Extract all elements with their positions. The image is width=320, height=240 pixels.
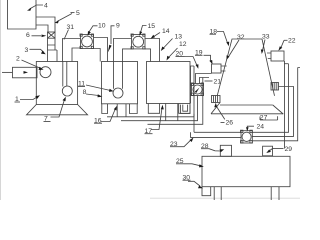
trapezoid scrubber [217, 39, 274, 96]
label 30 [183, 175, 204, 189]
svg-text:31: 31 [67, 24, 75, 31]
pipe from box 22 to right run A [284, 63, 289, 65]
pipe 3 below valve [48, 38, 56, 50]
scan edge left [0, 0, 2, 200]
drum 11 circle [113, 88, 123, 98]
screw feeder 2 body [2, 67, 37, 78]
rotary feeder circle 2 [40, 67, 51, 78]
label 16 [94, 106, 117, 125]
svg-text:4: 4 [44, 3, 48, 10]
label 13 [161, 34, 182, 52]
svg-text:9: 9 [116, 23, 120, 30]
svg-text:13: 13 [175, 34, 183, 41]
duct 15 left outer [114, 39, 132, 62]
duct 9 inner [94, 49, 101, 62]
svg-text:32: 32 [237, 34, 245, 41]
inlet box on chamber 1 [48, 50, 58, 62]
drum 7 circle [62, 86, 72, 96]
inlet box 29 [263, 146, 273, 156]
label 17 [145, 105, 164, 135]
label 22 [278, 38, 295, 51]
svg-text:5: 5 [76, 10, 80, 17]
label 5 [55, 10, 81, 23]
hatched discharge left 26 [212, 96, 221, 103]
pipe 5 outer [36, 17, 55, 32]
chamber 3 chute [166, 104, 178, 121]
stirrer pipe in chamber 2 [114, 62, 123, 89]
pipe from box 22 down to inlet 29 [284, 61, 286, 149]
label 19 [195, 50, 213, 65]
duct 14 right inner [145, 49, 151, 62]
duct 31 outer [63, 39, 81, 62]
label 9 [108, 23, 120, 53]
svg-text:10: 10 [98, 23, 106, 30]
inlet box 22 [267, 51, 284, 61]
stirrer pipe in chamber 1 [63, 62, 67, 87]
outlet box 30 [202, 187, 211, 196]
svg-text:3: 3 [25, 47, 29, 54]
pedestal of chamber 1 [27, 105, 88, 115]
svg-text:15: 15 [148, 23, 156, 30]
pump 21 top pipe [196, 74, 212, 84]
bottom pipe 23 lower [191, 132, 242, 137]
pump 24 [241, 130, 253, 143]
chamber 3 right leg [179, 104, 190, 114]
pipe 5 inner [36, 25, 48, 32]
valve 6 [48, 32, 56, 38]
svg-text:8: 8 [83, 89, 87, 96]
chamber 2 [102, 62, 138, 104]
right side pipe B [252, 87, 293, 137]
label 11 [78, 81, 114, 92]
chamber 1 [36, 62, 77, 105]
label 26 [214, 103, 233, 127]
svg-text:29: 29 [285, 146, 293, 153]
label 12 [167, 41, 187, 61]
fan 15 [131, 34, 145, 49]
elbow cluster [181, 105, 191, 114]
svg-text:26: 26 [226, 120, 234, 127]
label 33 [261, 34, 270, 55]
tank 25 left leg [214, 187, 221, 200]
label 14 [151, 28, 170, 39]
tank 25 [202, 156, 290, 186]
duct 14 right outer [145, 39, 160, 62]
pipe run 16 [107, 116, 194, 118]
label 31 [64, 24, 74, 40]
svg-text:12: 12 [179, 41, 187, 48]
chamber 3 left leg [148, 104, 159, 114]
label 4 [27, 3, 48, 11]
svg-text:2: 2 [16, 56, 20, 63]
duct 31 inner [72, 48, 81, 62]
label 7 [44, 97, 66, 123]
chamber 2 left leg [102, 104, 108, 114]
label 20 [176, 51, 199, 69]
hatched discharge right [271, 83, 279, 91]
label 2 [16, 56, 44, 71]
svg-text:6: 6 [26, 32, 30, 39]
label 8 [83, 89, 103, 97]
label 18 [210, 29, 230, 47]
label 15 [139, 23, 155, 36]
label 25 [176, 158, 204, 167]
label 28 [201, 143, 224, 152]
tank 25 right leg [271, 187, 279, 200]
label 32 [227, 34, 245, 60]
label 23 [170, 138, 194, 149]
trapezoid base [211, 103, 283, 115]
pipe run 17 [121, 96, 198, 121]
inlet box 19 [212, 64, 227, 73]
svg-text:24: 24 [257, 124, 265, 131]
fan 10 [80, 34, 94, 49]
chamber 2 right leg [130, 104, 138, 114]
pump 21 [191, 83, 204, 96]
duct 9 outer [94, 38, 108, 62]
bottom pipe 23 upper [194, 114, 241, 133]
scan edge bottom [150, 197, 300, 199]
duct 15 left inner [123, 49, 132, 62]
right side pipe C [252, 68, 300, 141]
bracket 27 [260, 114, 278, 121]
label 21 [205, 79, 222, 86]
svg-text:14: 14 [162, 28, 170, 35]
label 1 [15, 95, 41, 103]
chamber 2 chute [117, 104, 126, 117]
label 24 [246, 124, 264, 132]
chamber 3 [147, 62, 191, 104]
svg-text:33: 33 [262, 34, 270, 41]
label 29 [266, 146, 292, 153]
tank 4 [8, 0, 37, 29]
pipe run 3rd [148, 78, 203, 125]
label 10 [88, 23, 106, 36]
chamber 3 side pipe a [190, 66, 194, 117]
svg-text:22: 22 [288, 38, 296, 45]
label 6 [26, 32, 46, 39]
inlet box 28 [220, 145, 231, 156]
right side pipe A [252, 64, 288, 133]
label 3 [25, 47, 46, 54]
